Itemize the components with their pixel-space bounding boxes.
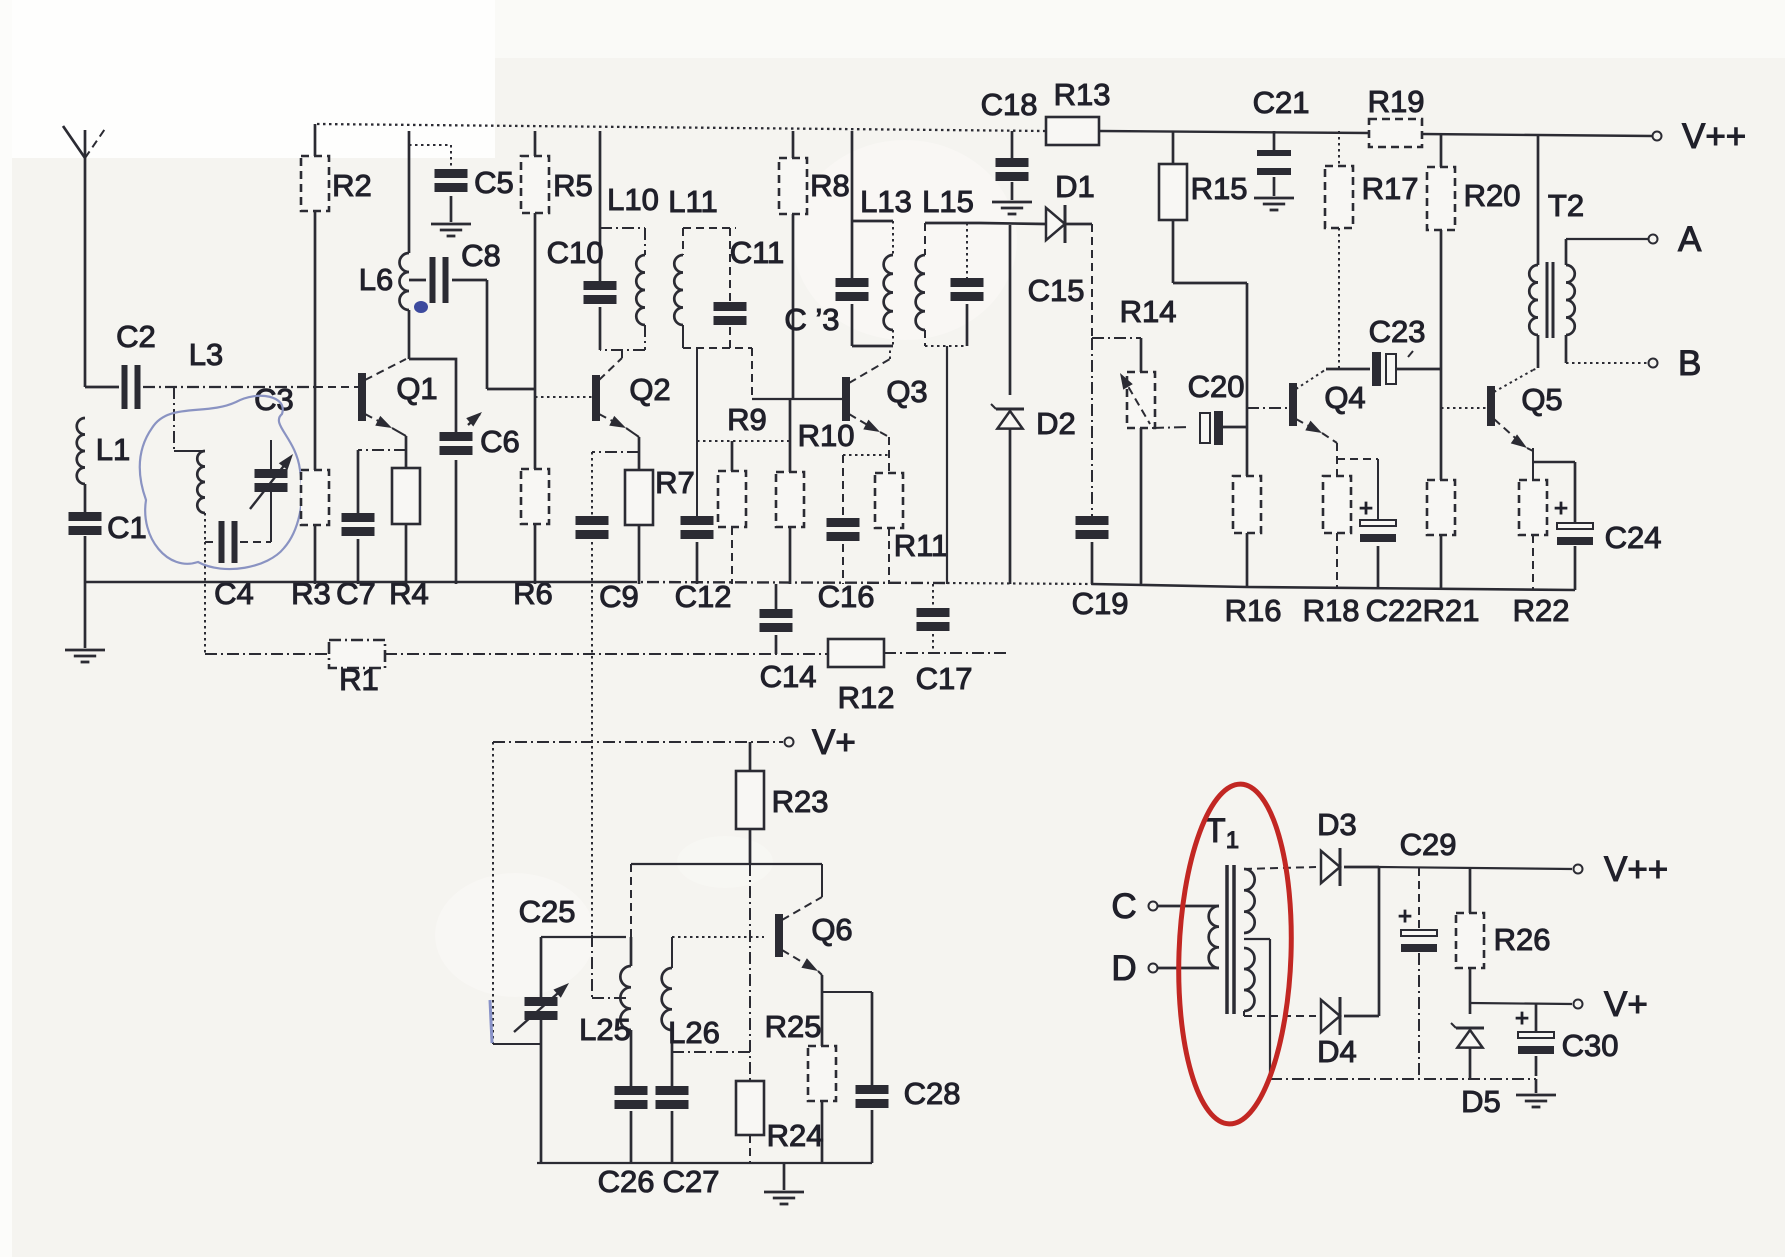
svg-text:D: D: [1111, 949, 1136, 988]
svg-text:L1: L1: [96, 432, 130, 467]
svg-text:A: A: [1678, 220, 1702, 259]
svg-text:C10: C10: [547, 235, 604, 270]
wire R24 column: [749, 864, 751, 1081]
wire osc frame: [490, 742, 541, 1044]
svg-text:R26: R26: [1494, 922, 1551, 957]
svg-text:D4: D4: [1317, 1034, 1357, 1069]
svg-text:C: C: [1111, 887, 1136, 926]
capacitor C4: [205, 521, 271, 611]
svg-text:C8: C8: [461, 238, 501, 273]
resistor R3: [291, 387, 331, 611]
resistor R23: [736, 742, 828, 864]
wire rectifier join: [1379, 867, 1572, 1016]
wire V+ line: [493, 723, 856, 762]
wire Q6 collector: [631, 864, 822, 937]
terminal D input: [1111, 949, 1219, 988]
wire tank1 top: [852, 131, 893, 255]
resistor R16: [1225, 476, 1282, 628]
inductor L15: [916, 184, 974, 346]
capacitor C8: [409, 238, 535, 389]
inductor L13: [852, 184, 912, 346]
svg-text:C25: C25: [519, 894, 576, 929]
wire psu ground bus: [1270, 1078, 1536, 1080]
resistor R10: [776, 399, 854, 584]
svg-text:Q1: Q1: [396, 371, 437, 406]
svg-text:R12: R12: [838, 680, 895, 715]
wire C25 top: [541, 936, 626, 938]
resistor R5: [521, 131, 593, 389]
terminal V++ main: [1653, 117, 1747, 156]
wire tank2 top: [925, 223, 980, 278]
svg-text:D5: D5: [1461, 1084, 1501, 1119]
capacitor C1: [69, 484, 147, 584]
diode D5: [1451, 1023, 1501, 1119]
capacitor C22: [1337, 459, 1422, 628]
svg-text:C29: C29: [1400, 827, 1457, 862]
wire L26 tap: [672, 1051, 750, 1053]
ground oscillator: [764, 1163, 804, 1204]
capacitor C20: [1152, 369, 1247, 445]
wire V+ psu: [1470, 985, 1648, 1024]
svg-text:+: +: [1515, 1005, 1529, 1032]
capacitor C29: [1398, 827, 1456, 1079]
wire L26 base: [672, 936, 764, 938]
svg-text:D2: D2: [1036, 406, 1076, 441]
svg-text:C19: C19: [1072, 586, 1129, 621]
capacitor C23: [1326, 314, 1441, 386]
svg-text:L15: L15: [922, 184, 974, 219]
resistor R20: [1427, 134, 1520, 480]
svg-text:D3: D3: [1317, 807, 1357, 842]
svg-text:C27: C27: [663, 1164, 720, 1199]
capacitor C10: [547, 131, 617, 350]
ground psu: [1516, 1079, 1556, 1107]
svg-text:L25: L25: [579, 1012, 631, 1047]
svg-text:C28: C28: [904, 1076, 961, 1111]
svg-text:Q6: Q6: [811, 912, 852, 947]
diode D1: [980, 169, 1095, 243]
svg-text:C20: C20: [1188, 369, 1245, 404]
resistor R14: [1092, 294, 1176, 584]
svg-text:L13: L13: [860, 184, 912, 219]
svg-text:+: +: [1359, 495, 1373, 522]
capacitor C28: [856, 992, 961, 1163]
svg-text:C15: C15: [1028, 273, 1085, 308]
svg-text:C1: C1: [107, 510, 147, 545]
svg-text:R16: R16: [1225, 593, 1282, 628]
transistor Q1: [358, 359, 438, 436]
svg-text:Q2: Q2: [629, 372, 670, 407]
terminal V++ psu: [1574, 850, 1669, 889]
transformer T2: [1529, 136, 1584, 368]
wire bottom bus: [85, 582, 1575, 590]
resistor R22: [1513, 480, 1570, 628]
blue dot: [414, 301, 428, 313]
capacitor C16: [818, 455, 889, 614]
svg-text:C6: C6: [480, 424, 520, 459]
capacitor C5: [409, 145, 514, 236]
resistor R18: [1303, 443, 1360, 628]
svg-text:R21: R21: [1423, 593, 1480, 628]
capacitor C11: [714, 228, 785, 348]
svg-text:+: +: [1398, 903, 1412, 930]
svg-text:C30: C30: [1562, 1028, 1619, 1063]
svg-text:Q3: Q3: [886, 374, 927, 409]
resistor R24: [736, 1081, 823, 1163]
resistor R21: [1423, 480, 1480, 628]
svg-text:R13: R13: [1054, 77, 1111, 112]
svg-text:L3: L3: [189, 337, 223, 372]
blue scribble: [140, 396, 302, 569]
svg-text:R1: R1: [339, 662, 379, 697]
transistor Q5: [1487, 368, 1563, 453]
resistor R25: [765, 1009, 836, 1163]
antenna: [63, 126, 107, 387]
svg-text:R9: R9: [727, 402, 767, 437]
inductor L10: [600, 182, 659, 350]
capacitor C15: [925, 273, 1084, 346]
resistor R17: [1325, 131, 1418, 369]
resistor R2: [301, 124, 372, 387]
svg-text:L10: L10: [607, 182, 659, 217]
capacitor C25: [514, 894, 575, 1163]
resistor R12: [828, 639, 894, 715]
inductor L1: [77, 418, 130, 484]
wire lower line right: [884, 652, 1010, 654]
transistor Q4: [1289, 369, 1366, 443]
wire T1 tap: [1244, 939, 1270, 1079]
capacitor C7: [336, 450, 406, 611]
svg-text:R20: R20: [1464, 178, 1521, 213]
svg-text:C14: C14: [760, 659, 817, 694]
svg-text:V+: V+: [1604, 985, 1648, 1024]
svg-text:R8: R8: [810, 168, 850, 203]
svg-text:R15: R15: [1191, 171, 1248, 206]
capacitor C6: [409, 359, 520, 584]
capacitor C26: [598, 1086, 655, 1199]
svg-text:C18: C18: [981, 87, 1038, 122]
svg-text:C24: C24: [1605, 520, 1662, 555]
capacitor C12: [675, 516, 732, 614]
capacitor C14: [760, 584, 817, 694]
wire R15 to R16: [1173, 283, 1247, 476]
svg-text:Q5: Q5: [1521, 382, 1562, 417]
wire R1 feed: [204, 542, 206, 654]
resistor R11: [875, 437, 948, 584]
svg-text:C16: C16: [818, 579, 875, 614]
resistor R15: [1159, 131, 1247, 283]
wire tank2 out: [683, 348, 752, 516]
svg-text:C5: C5: [474, 165, 514, 200]
red ellipse T1: [1173, 782, 1297, 1126]
wire osc ground bus: [537, 1162, 872, 1164]
svg-text:C3: C3: [254, 382, 294, 417]
resistor R6: [513, 389, 553, 611]
diode D3: [1244, 807, 1379, 886]
svg-text:C21: C21: [1253, 85, 1310, 120]
transistor Q3: [842, 346, 928, 437]
wire tap from C9: [592, 935, 628, 998]
svg-text:L11: L11: [668, 184, 717, 219]
svg-text:R10: R10: [798, 418, 855, 453]
capacitor C21: [1253, 85, 1310, 210]
svg-text:R24: R24: [767, 1118, 824, 1153]
svg-text:C22: C22: [1366, 593, 1423, 628]
capacitor C18: [981, 87, 1038, 214]
svg-text:R25: R25: [765, 1009, 822, 1044]
svg-text:C17: C17: [916, 661, 973, 696]
resistor R9: [697, 402, 790, 584]
resistor R1: [205, 640, 385, 697]
wire detector: [1091, 224, 1093, 516]
wire lower line: [385, 653, 828, 655]
svg-text:B: B: [1678, 344, 1701, 383]
ground antenna: [65, 584, 105, 662]
svg-text:Q4: Q4: [1324, 380, 1365, 415]
svg-text:L26: L26: [668, 1015, 720, 1050]
svg-text:R19: R19: [1368, 84, 1425, 119]
svg-text:L6: L6: [359, 262, 393, 297]
wire Q2 base: [535, 396, 592, 398]
svg-text:R11: R11: [894, 528, 949, 563]
svg-text:+: +: [1554, 495, 1568, 522]
wire output A: [1566, 220, 1702, 265]
resistor R19: [1368, 84, 1425, 147]
svg-text:C9: C9: [599, 579, 639, 614]
svg-text:R2: R2: [332, 168, 372, 203]
capacitor C13: [784, 221, 868, 346]
svg-text:V++: V++: [1604, 850, 1668, 889]
resistor R4: [389, 436, 429, 611]
svg-text:V+: V+: [812, 723, 856, 762]
resistor R13: [1046, 77, 1110, 145]
resistor R7: [625, 437, 695, 584]
transformer T1: [1205, 812, 1255, 1014]
wire tank2 to bus: [946, 346, 948, 584]
svg-text:C ’3: C ’3: [784, 302, 839, 337]
svg-text:C2: C2: [116, 319, 156, 354]
inductor L25: [579, 937, 631, 1086]
inductor L6: [359, 131, 409, 359]
wire Q5 base: [1441, 407, 1487, 409]
wire Q4 base: [1247, 407, 1290, 409]
svg-text:R7: R7: [655, 465, 695, 500]
wire top bus: [317, 124, 1652, 136]
capacitor C17: [916, 584, 973, 696]
whiteout blob osc: [435, 836, 773, 997]
svg-text:R22: R22: [1513, 593, 1570, 628]
svg-text:C23: C23: [1369, 314, 1426, 349]
diode D4: [1244, 997, 1379, 1069]
whiteout blob tank: [793, 140, 1017, 340]
svg-text:C11: C11: [730, 235, 785, 270]
resistor R8: [779, 131, 850, 399]
wire Q3 base: [752, 398, 843, 400]
transistor Q6: [775, 864, 853, 976]
svg-text:R23: R23: [772, 784, 829, 819]
svg-text:C26: C26: [598, 1164, 655, 1199]
svg-text:R17: R17: [1362, 171, 1419, 206]
capacitor C19: [1072, 516, 1129, 621]
capacitor C30: [1515, 1004, 1618, 1076]
capacitor C2: [116, 319, 156, 409]
wire output B: [1566, 335, 1701, 383]
terminal C input: [1111, 887, 1219, 926]
capacitor C9: [576, 452, 640, 614]
capacitor C27: [656, 1086, 720, 1199]
svg-text:C12: C12: [675, 579, 732, 614]
transistor Q2: [592, 350, 671, 437]
svg-text:V++: V++: [1682, 117, 1746, 156]
wire Q1 base: [315, 386, 358, 388]
wire osc emitter: [822, 975, 872, 1046]
capacitor C3: [250, 382, 297, 542]
svg-text:R18: R18: [1303, 593, 1360, 628]
inductor L11: [668, 184, 736, 348]
inductor L2: [174, 387, 205, 542]
svg-text:T2: T2: [1548, 188, 1584, 223]
wire osc feed: [591, 584, 593, 935]
inductor L26: [662, 937, 720, 1086]
svg-text:R14: R14: [1120, 294, 1177, 329]
svg-text:R5: R5: [553, 168, 593, 203]
svg-text:D1: D1: [1055, 169, 1095, 204]
resistor R26: [1456, 868, 1550, 1014]
wire L3 input: [85, 337, 315, 387]
diode D2: [991, 225, 1076, 584]
capacitor C24: [1533, 448, 1661, 590]
